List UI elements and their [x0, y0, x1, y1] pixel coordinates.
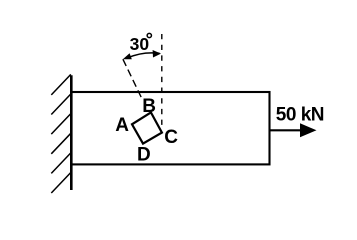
force arrow shaft — [270, 129, 302, 131]
wall hatch 2 — [51, 94, 71, 115]
force arrowhead — [300, 123, 317, 137]
svg-text:50 kN: 50 kN — [276, 105, 324, 126]
stress element square ABCD — [132, 112, 162, 143]
svg-text:B: B — [142, 96, 156, 117]
svg-text:D: D — [137, 145, 151, 166]
wall support line — [70, 75, 73, 190]
dashed inclined reference line (30 deg) — [123, 59, 143, 100]
wall hatch 5 — [51, 153, 71, 174]
wall hatch 1 — [51, 74, 71, 95]
svg-text:30: 30 — [130, 34, 150, 54]
bar (beam) rectangle — [71, 92, 269, 164]
dashed vertical reference line — [161, 34, 163, 129]
svg-text:A: A — [115, 115, 129, 136]
wall hatch 3 — [51, 114, 71, 135]
angle arc — [128, 53, 159, 58]
svg-text:C: C — [164, 127, 178, 148]
angle arc right arrowhead — [153, 50, 161, 58]
wall hatch 6 — [51, 173, 71, 194]
degree symbol — [147, 33, 151, 37]
wall hatch 4 — [51, 133, 71, 154]
angle arc left arrowhead — [123, 53, 132, 59]
